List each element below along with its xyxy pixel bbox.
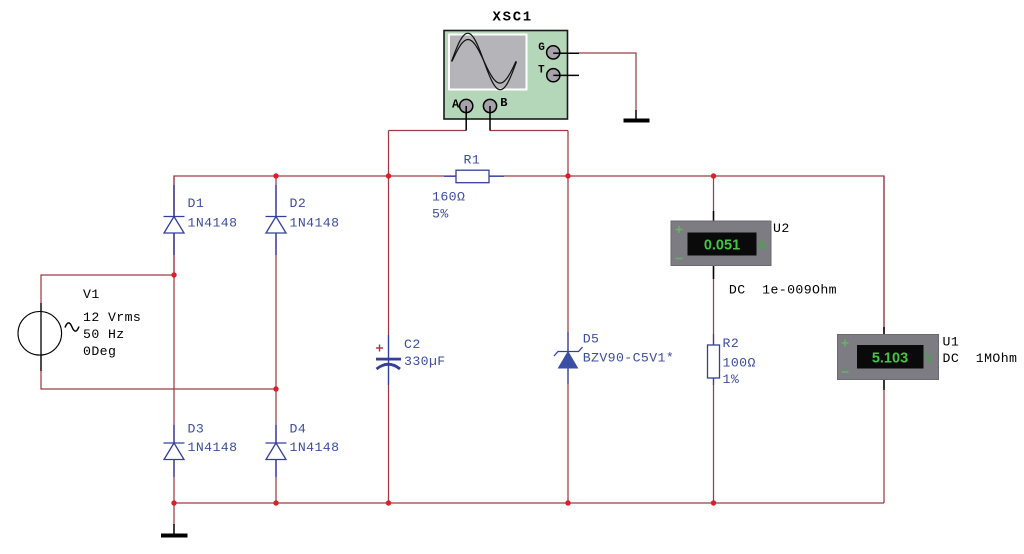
wire V1 bottom (41, 355, 276, 389)
svg-text:100Ω: 100Ω (723, 356, 756, 371)
wire scope G lead (553, 52, 579, 54)
resistor R1 (444, 170, 504, 183)
ground bottom left (161, 524, 188, 538)
svg-text:5.103: 5.103 (872, 351, 908, 367)
wire top bus (174, 176, 884, 334)
wire scope A lead (465, 106, 467, 131)
svg-text:1N4148: 1N4148 (290, 215, 340, 230)
diode D1 (164, 185, 185, 255)
svg-text:D1: D1 (188, 196, 205, 211)
wire scope T lead (553, 74, 579, 76)
oscilloscope XSC1 (444, 31, 568, 120)
scope terminal A (460, 99, 473, 112)
wire bridge column 2 (275, 176, 277, 503)
wire U1 column (883, 176, 885, 503)
svg-text:1N4148: 1N4148 (188, 215, 238, 230)
ground top right (624, 110, 650, 123)
node C2 top junction (386, 173, 391, 178)
wire bridge column 1 (173, 176, 175, 503)
node D5 top junction (565, 173, 570, 178)
svg-text:V1: V1 (83, 287, 100, 302)
svg-text:0.051: 0.051 (704, 238, 740, 254)
svg-text:1N4148: 1N4148 (188, 440, 238, 455)
svg-text:DC 1MOhm: DC 1MOhm (943, 351, 1018, 366)
svg-text:160Ω: 160Ω (432, 190, 465, 205)
node U2 top junction (711, 173, 716, 178)
node D1 top bus junction (273, 173, 278, 178)
ammeter U2 (671, 211, 771, 279)
svg-text:R2: R2 (723, 336, 740, 351)
node D5 bottom junction (565, 500, 570, 505)
svg-text:R1: R1 (464, 153, 481, 168)
wire scope G to ground (579, 53, 636, 110)
wire scope B lead (489, 106, 491, 131)
svg-text:B: B (500, 96, 508, 110)
svg-text:5%: 5% (432, 207, 449, 222)
svg-text:330µF: 330µF (404, 354, 446, 369)
diode D2 (266, 185, 287, 255)
diode D4 (266, 425, 287, 477)
svg-text:50 Hz: 50 Hz (83, 327, 125, 342)
zener diode D5 (554, 332, 583, 384)
svg-text:DC 1e-009Ohm: DC 1e-009Ohm (729, 282, 837, 297)
svg-text:C2: C2 (404, 337, 421, 352)
svg-text:D3: D3 (188, 422, 205, 437)
svg-text:BZV90-C5V1*: BZV90-C5V1* (583, 351, 674, 366)
svg-text:D5: D5 (583, 331, 600, 346)
svg-text:A: A (452, 98, 460, 112)
node V1 minus junction (273, 386, 278, 391)
wire ground drop (173, 503, 175, 525)
diode D3 (164, 425, 185, 477)
wire U2 R2 column (713, 176, 715, 503)
node C2 bottom junction (386, 500, 391, 505)
node D4 bottom junction (273, 500, 278, 505)
svg-text:U2: U2 (773, 221, 790, 236)
source V1 (18, 303, 79, 371)
capacitor C2 (376, 335, 401, 385)
wire scope A (389, 130, 467, 132)
scope terminal T (547, 69, 560, 82)
svg-text:A: A (758, 240, 766, 252)
svg-text:XSC1: XSC1 (493, 10, 533, 26)
svg-text:1%: 1% (723, 372, 740, 387)
svg-text:0Deg: 0Deg (83, 344, 116, 359)
node R2 bottom junction (711, 500, 716, 505)
node V1 plus junction (171, 272, 176, 277)
svg-text:G: G (538, 42, 545, 54)
scope terminal G (547, 46, 560, 59)
svg-text:V: V (925, 353, 933, 365)
wire C2 column (388, 131, 390, 504)
wire V1 top (41, 275, 174, 311)
wire D5 column (567, 131, 569, 504)
wire bottom bus (174, 502, 884, 504)
svg-text:D4: D4 (290, 422, 307, 437)
svg-text:D2: D2 (290, 196, 307, 211)
svg-text:12 Vrms: 12 Vrms (83, 310, 141, 325)
svg-text:1N4148: 1N4148 (290, 440, 340, 455)
node ground junction (171, 500, 176, 505)
scope terminal B (483, 99, 496, 112)
resistor R2 (708, 334, 720, 385)
svg-text:U1: U1 (943, 335, 960, 350)
voltmeter U1 (838, 327, 939, 390)
wire scope B (490, 130, 568, 132)
svg-text:T: T (538, 65, 545, 77)
